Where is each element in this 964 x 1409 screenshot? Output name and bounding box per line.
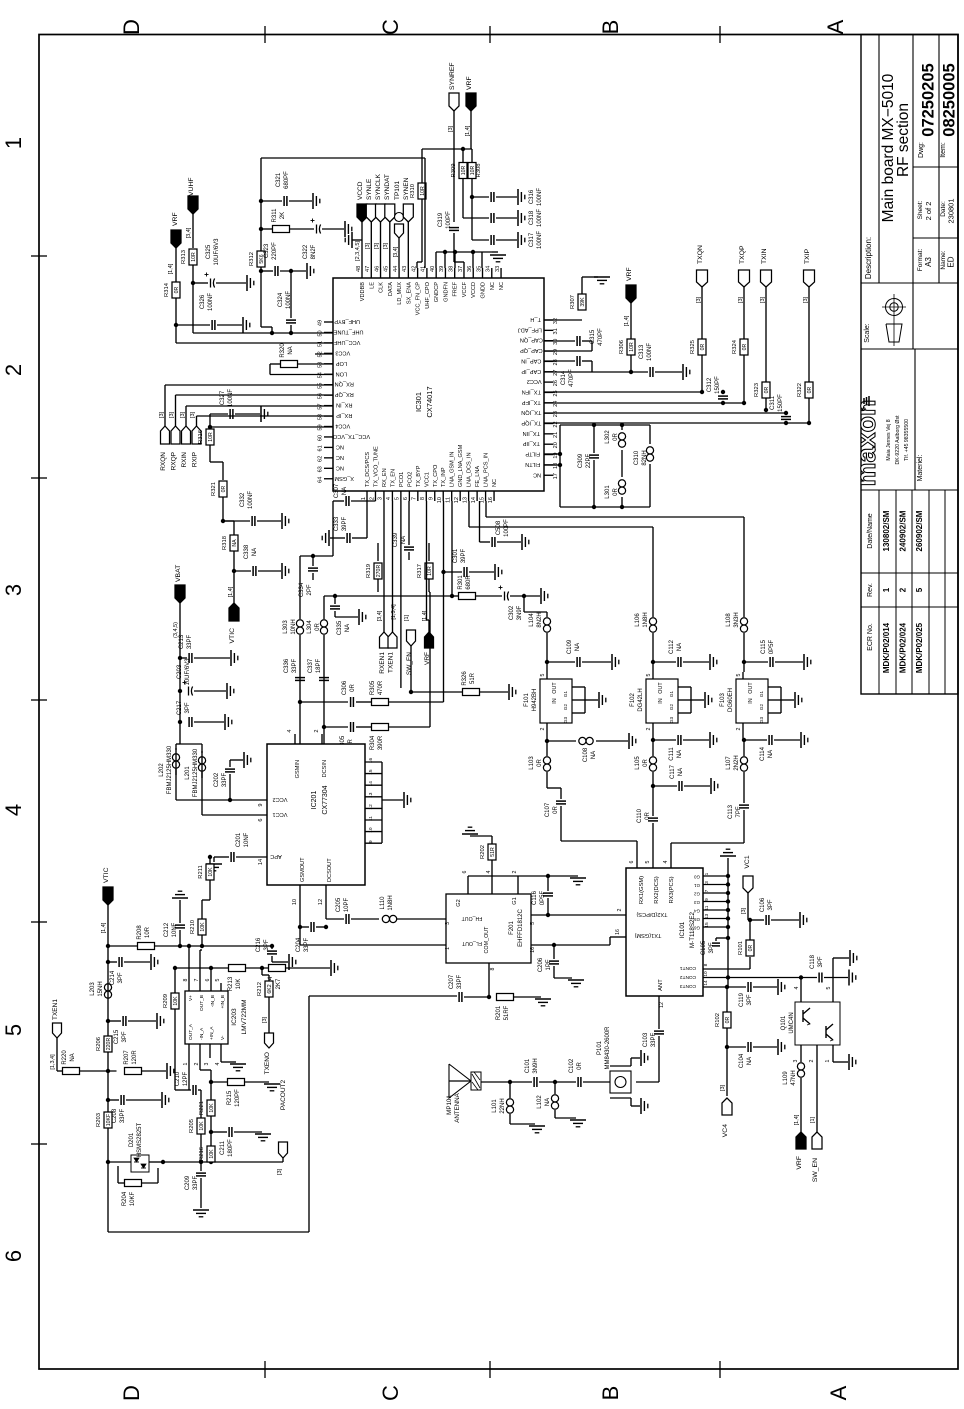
inductor L107 2N2H — [726, 740, 748, 803]
net flag VRF bottom — [794, 1114, 806, 1169]
svg-text:3: 3 — [204, 1062, 210, 1065]
capacitor C115 0P5F — [744, 639, 803, 667]
svg-text:Rev.: Rev. — [867, 583, 874, 597]
svg-text:[2,3,4,5]: [2,3,4,5] — [355, 241, 361, 261]
svg-text:C207: C207 — [449, 974, 455, 989]
svg-text:VCC2: VCC2 — [527, 378, 542, 384]
capacitor C322 8N2F polarized — [303, 219, 344, 260]
wire PCO1 stub — [400, 501, 402, 688]
svg-text:C339: C339 — [393, 532, 399, 547]
svg-text:2: 2 — [617, 908, 623, 911]
net flag TXQN — [696, 245, 708, 339]
svg-text:H942BH: H942BH — [532, 689, 538, 712]
capacitor C332 100NF — [223, 491, 281, 526]
wire detector line — [163, 1160, 283, 1164]
svg-text:28: 28 — [553, 359, 559, 365]
svg-text:VCC1: VCC1 — [424, 472, 430, 487]
svg-text:G3: G3 — [759, 716, 764, 723]
svg-text:G2: G2 — [759, 703, 764, 710]
svg-text:DATA: DATA — [388, 282, 394, 296]
svg-text:10K: 10K — [173, 996, 179, 1006]
svg-text:C333: C333 — [334, 516, 340, 531]
wire VCC1 line to IC201 — [202, 814, 267, 816]
capacitor C333 39PF — [330, 501, 367, 543]
svg-text:47: 47 — [365, 266, 371, 272]
svg-text:G5: G5 — [694, 917, 700, 922]
svg-text:GNDFN: GNDFN — [443, 282, 449, 302]
svg-text:33PF: 33PF — [651, 1032, 657, 1047]
svg-text:IN: IN — [552, 698, 558, 703]
resistor R208 10R — [108, 925, 272, 950]
net flag VTIC upper — [228, 586, 239, 643]
ground near C217 — [224, 714, 226, 730]
svg-text:SX_ENA: SX_ENA — [406, 282, 412, 304]
svg-text:10: 10 — [703, 971, 709, 977]
svg-text:[3]: [3] — [190, 411, 196, 418]
svg-text:RX3(PCS): RX3(PCS) — [669, 876, 675, 903]
svg-text:3: 3 — [793, 1059, 799, 1062]
svg-text:VCC4: VCC4 — [335, 423, 350, 429]
svg-text:GNDD: GNDD — [481, 282, 487, 298]
svg-text:[3]: [3] — [277, 1168, 283, 1175]
svg-text:C311: C311 — [770, 395, 776, 410]
svg-text:COM_OUT: COM_OUT — [484, 926, 490, 954]
capacitor C207 33PF — [449, 974, 491, 1002]
svg-text:R319: R319 — [366, 564, 372, 578]
svg-text:51R: 51R — [470, 672, 476, 684]
net flag RXQP — [169, 411, 180, 470]
svg-text:39K: 39K — [580, 297, 586, 307]
svg-text:[1,4]: [1,4] — [101, 922, 107, 933]
svg-text:EHFFD1812C: EHFFD1812C — [518, 908, 524, 946]
capacitor C337 18PF — [308, 658, 329, 680]
svg-text:C324: C324 — [278, 292, 284, 307]
svg-text:4: 4 — [486, 870, 492, 873]
capacitor C210 12PF — [175, 1058, 201, 1118]
ground near C111 — [709, 732, 711, 748]
net flag TXEN1 left — [50, 999, 63, 1071]
svg-text:C201: C201 — [236, 832, 242, 847]
capacitor C312 150PF — [707, 376, 728, 405]
svg-text:NC: NC — [492, 479, 498, 487]
capacitor C213 33PF — [179, 634, 230, 663]
svg-text:11: 11 — [446, 497, 452, 503]
Item number 08250005 — [940, 63, 959, 157]
svg-text:MP101: MP101 — [446, 1095, 453, 1115]
svg-text:R320: R320 — [280, 343, 286, 358]
ground near R202 — [462, 833, 478, 835]
svg-text:D: D — [119, 19, 144, 35]
svg-text:RXIP: RXIP — [192, 452, 199, 467]
svg-text:NC: NC — [336, 454, 344, 460]
capacitor C305 0R — [340, 722, 354, 750]
wire VCC_FN feed — [422, 147, 472, 151]
title block outline — [861, 35, 958, 695]
resistor R305 470R — [370, 680, 389, 705]
svg-text:C203: C203 — [177, 664, 183, 679]
svg-text:VCCD: VCCD — [471, 282, 477, 298]
svg-text:C310: C310 — [634, 450, 640, 465]
svg-text:NA: NA — [677, 643, 683, 651]
capacitor C316 100NF — [472, 188, 543, 206]
wire UHF charge pump rail — [259, 158, 272, 333]
svg-text:C338: C338 — [244, 544, 250, 559]
svg-text:10R: 10R — [629, 342, 635, 352]
svg-text:2: 2 — [194, 1062, 200, 1065]
svg-text:6: 6 — [258, 818, 264, 821]
svg-text:R211: R211 — [198, 865, 204, 878]
ground Q101 pin5 — [849, 950, 851, 966]
svg-text:R321: R321 — [211, 482, 217, 496]
svg-text:100PF: 100PF — [504, 519, 510, 537]
svg-text:C318: C318 — [529, 210, 535, 225]
svg-text:L109: L109 — [783, 1071, 789, 1085]
svg-text:VCC1: VCC1 — [273, 811, 288, 817]
svg-text:C302: C302 — [509, 605, 515, 620]
ground of supply bus — [490, 252, 506, 262]
svg-text:ANTENNA: ANTENNA — [454, 1092, 461, 1122]
ground near pin 48 — [345, 232, 362, 248]
IC IC101 LM-T118S2E2 antenna switch — [626, 860, 730, 996]
svg-text:14: 14 — [703, 980, 709, 986]
svg-text:0R: 0R — [748, 944, 754, 951]
svg-text:10R: 10R — [461, 165, 467, 175]
svg-text:TX_DCS/PCS: TX_DCS/PCS — [365, 452, 371, 487]
svg-text:33PF: 33PF — [222, 772, 228, 787]
wire GSM TX line — [300, 570, 446, 744]
svg-text:1: 1 — [183, 1062, 189, 1065]
svg-text:R212: R212 — [257, 982, 263, 996]
inductor L106 1N8H — [635, 612, 657, 672]
svg-text:LON: LON — [336, 370, 348, 376]
svg-text:3PF: 3PF — [709, 942, 715, 953]
svg-text:B: B — [598, 20, 623, 35]
svg-text:VBAT: VBAT — [175, 565, 182, 582]
wire RX_IP to flag — [197, 416, 334, 426]
svg-text:R322: R322 — [797, 383, 803, 397]
wire LNA_PCS feed line — [486, 501, 744, 617]
inductor L303 10NH — [283, 556, 304, 704]
Dwg number 07250205 — [918, 63, 938, 158]
ground near C206 — [568, 979, 584, 981]
svg-text:C: C — [378, 1385, 403, 1401]
ground near C108 — [628, 733, 630, 749]
svg-text:SYNLE: SYNLE — [366, 178, 373, 200]
svg-text:NA: NA — [252, 548, 258, 556]
resistor R306 10R — [619, 339, 635, 374]
svg-text:5: 5 — [215, 978, 221, 981]
capacitor C314 470PF — [544, 356, 592, 387]
svg-text:37: 37 — [458, 266, 464, 272]
net flag SYNDAT — [383, 174, 395, 268]
svg-text:G1: G1 — [759, 690, 764, 697]
capacitor C216 3PF — [256, 937, 288, 962]
svg-text:16: 16 — [530, 947, 536, 953]
revision table texts — [867, 510, 924, 673]
svg-text:0P5F: 0P5F — [769, 639, 775, 654]
svg-text:6: 6 — [1, 1250, 26, 1262]
net flag TXIP — [803, 248, 815, 382]
svg-text:C108: C108 — [583, 747, 589, 762]
svg-text:DG60EH: DG60EH — [728, 688, 734, 712]
svg-text:FH_OUT: FH_OUT — [461, 915, 483, 921]
svg-text:5: 5 — [395, 497, 401, 500]
svg-text:6: 6 — [205, 978, 211, 981]
ground near C332 — [281, 513, 283, 529]
svg-text:IC101: IC101 — [679, 921, 686, 938]
svg-text:VTIC: VTIC — [103, 867, 110, 883]
svg-text:G3: G3 — [694, 900, 700, 905]
svg-text:C325: C325 — [206, 244, 212, 259]
ground near C112 — [709, 654, 711, 670]
resistor R216 10K — [199, 1132, 215, 1162]
svg-text:TP101: TP101 — [394, 180, 401, 200]
svg-text:CX77304: CX77304 — [322, 785, 329, 814]
svg-text:10NF: 10NF — [244, 832, 250, 847]
svg-text:31: 31 — [553, 328, 559, 334]
resistor R322 0R — [797, 382, 813, 425]
svg-text:UMC4N: UMC4N — [789, 1012, 795, 1033]
svg-text:TX1(GSM): TX1(GSM) — [635, 932, 662, 938]
svg-text:23: 23 — [553, 411, 559, 417]
svg-text:CAP_IP: CAP_IP — [521, 368, 541, 374]
svg-text:RX_IP: RX_IP — [336, 412, 352, 418]
svg-text:VCC_TX_VCO: VCC_TX_VCO — [332, 433, 370, 439]
svg-text:MDK/P02/014: MDK/P02/014 — [882, 622, 891, 673]
svg-text:R324: R324 — [732, 339, 738, 354]
svg-text:C309: C309 — [578, 453, 584, 468]
resistor R309 10R — [451, 149, 467, 218]
inductor C310 82NH — [634, 425, 654, 507]
ground near C323 — [306, 263, 308, 279]
svg-text:TXENO: TXENO — [264, 1052, 271, 1074]
svg-text:R206: R206 — [96, 1037, 102, 1051]
resistor R312 5K6 — [249, 251, 265, 267]
svg-text:ED: ED — [947, 256, 956, 267]
ground near R207 — [166, 1063, 168, 1079]
svg-text:R316: R316 — [198, 430, 204, 444]
wire VCO feed line — [324, 501, 458, 598]
svg-text:FBMJ2125HM330: FBMJ2125HM330 — [167, 745, 173, 794]
wire UHF_TUNE pin50 — [193, 331, 333, 335]
net flag SYNREF — [448, 62, 459, 222]
svg-text:[3]: [3] — [696, 296, 702, 303]
svg-text:C315: C315 — [590, 329, 596, 344]
resistor R205 10K — [189, 1118, 205, 1162]
svg-text:L201: L201 — [185, 766, 191, 780]
capacitor C315 470PF — [544, 328, 604, 351]
svg-text:VTIC: VTIC — [229, 628, 236, 644]
svg-text:62: 62 — [318, 456, 324, 462]
wire VCC2 line to IC201 — [176, 798, 267, 802]
svg-text:0R: 0R — [742, 343, 748, 350]
net flag SYNLE — [365, 178, 376, 268]
ground near C118 — [848, 970, 850, 986]
svg-text:C202: C202 — [214, 772, 220, 787]
svg-text:30: 30 — [553, 339, 559, 345]
svg-text:100NF: 100NF — [537, 209, 543, 227]
wire RX1 to IC101 pin6 — [561, 841, 637, 868]
capacitor C205 10PF — [326, 897, 379, 924]
svg-text:F201: F201 — [509, 921, 515, 935]
net flag VBAT — [173, 565, 185, 744]
svg-text:LNA_GSM_IN: LNA_GSM_IN — [450, 452, 456, 487]
svg-text:2: 2 — [540, 727, 546, 730]
resistor R326 51R — [409, 671, 508, 696]
svg-text:15: 15 — [479, 497, 485, 503]
svg-text:CLK: CLK — [379, 282, 385, 293]
svg-text:10UF/6V3: 10UF/6V3 — [214, 238, 220, 266]
net flag RXQN — [159, 411, 170, 470]
svg-text:G1: G1 — [669, 690, 674, 697]
resistor R301 680R — [458, 575, 502, 600]
svg-text:VCCD: VCCD — [357, 181, 364, 200]
ground near C208 — [161, 1092, 163, 1108]
capacitor C214 3PF — [108, 957, 150, 985]
svg-text:G1: G1 — [694, 883, 700, 888]
ground near C327 — [260, 406, 262, 422]
svg-text:CAP_QN: CAP_QN — [520, 337, 543, 343]
svg-text:1PF: 1PF — [546, 959, 552, 970]
capacitor C112 NA — [653, 639, 709, 667]
net flag TXQP — [738, 245, 750, 339]
resistor R101 0R — [738, 918, 754, 956]
svg-text:IN: IN — [658, 698, 664, 703]
svg-text:R306: R306 — [619, 340, 625, 354]
svg-text:RX_EN: RX_EN — [382, 468, 388, 487]
ground above C212 — [172, 897, 188, 899]
svg-text:Format:: Format: — [917, 249, 924, 272]
svg-text:CAP_QP: CAP_QP — [520, 347, 543, 353]
resistor R102 0R — [715, 987, 731, 1096]
svg-text:C313: C313 — [639, 344, 645, 359]
svg-text:10KF: 10KF — [130, 1191, 136, 1206]
inductor L110 1N8H — [380, 895, 446, 922]
svg-text:260902/SM: 260902/SM — [915, 510, 924, 551]
svg-text:150PF: 150PF — [715, 376, 721, 394]
svg-text:UHF_CPO: UHF_CPO — [425, 281, 431, 308]
svg-text:R209: R209 — [163, 994, 169, 1008]
svg-text:Materiel:: Materiel: — [917, 455, 924, 482]
svg-text:NA: NA — [545, 1098, 551, 1106]
svg-text:21: 21 — [553, 432, 559, 438]
svg-text:+IN_B: +IN_B — [220, 995, 226, 1008]
svg-text:C312: C312 — [707, 377, 713, 392]
svg-text:OUT: OUT — [658, 682, 664, 694]
svg-text:4: 4 — [1, 804, 26, 816]
capacitor C212 10NF — [164, 900, 185, 946]
svg-text:2 of 2: 2 of 2 — [924, 202, 933, 221]
svg-text:220R: 220R — [106, 1038, 112, 1051]
svg-text:R220: R220 — [62, 1050, 68, 1065]
svg-text:8: 8 — [420, 497, 426, 500]
svg-text:C316: C316 — [529, 189, 535, 204]
svg-text:12: 12 — [454, 497, 460, 503]
svg-text:Sheet:: Sheet: — [917, 200, 924, 219]
ground near C119 — [777, 979, 779, 995]
svg-text:[1,3,4]: [1,3,4] — [391, 604, 397, 620]
svg-text:C215: C215 — [114, 1029, 120, 1044]
svg-text:[3]: [3] — [383, 242, 389, 249]
capacitor C313 100NF — [639, 343, 682, 377]
resistor R325 0R — [690, 339, 706, 394]
svg-text:C117: C117 — [670, 764, 676, 779]
svg-text:GSMOUT: GSMOUT — [300, 857, 306, 882]
svg-text:VUHF: VUHF — [188, 177, 195, 196]
svg-text:VRF: VRF — [796, 1156, 803, 1170]
svg-text:[3]: [3] — [159, 411, 165, 418]
svg-text:CAP_IN: CAP_IN — [521, 357, 541, 363]
svg-text:R325: R325 — [690, 340, 696, 354]
net flag SW_EN bottom — [810, 1056, 822, 1182]
svg-text:LD_MUX: LD_MUX — [397, 282, 403, 305]
inductor L304 0R — [307, 596, 328, 729]
svg-text:IC201: IC201 — [311, 791, 318, 810]
svg-text:NC: NC — [499, 282, 505, 290]
svg-text:L202: L202 — [159, 763, 165, 777]
svg-text:8: 8 — [703, 963, 709, 966]
resistor R318 NA — [222, 535, 238, 603]
resistor R319 270R — [366, 543, 382, 592]
svg-text:680PF: 680PF — [284, 171, 290, 189]
svg-text:10NH: 10NH — [291, 619, 297, 634]
svg-text:10K: 10K — [209, 1103, 215, 1113]
ground near C318 — [517, 210, 519, 226]
svg-text:L103: L103 — [529, 756, 535, 770]
svg-text:C206: C206 — [538, 957, 544, 972]
test point TP101 — [393, 180, 404, 268]
svg-text:58: 58 — [318, 414, 324, 420]
svg-text:G1: G1 — [563, 690, 568, 697]
svg-text:3: 3 — [445, 922, 451, 925]
svg-text:8N2H: 8N2H — [537, 612, 543, 627]
svg-text:RX1(GSM): RX1(GSM) — [639, 876, 645, 904]
resistor R211 10K — [198, 855, 214, 900]
ferrite bead L202 FBMJ2125HM330 — [159, 744, 202, 800]
svg-text:RXQN: RXQN — [160, 452, 167, 471]
svg-text:NA: NA — [747, 1057, 753, 1065]
svg-text:17: 17 — [553, 473, 559, 479]
svg-text:A3: A3 — [924, 257, 933, 267]
svg-text:13: 13 — [368, 792, 374, 798]
svg-text:APC: APC — [270, 853, 282, 859]
svg-text:Q101: Q101 — [781, 1015, 787, 1030]
ground near C115 — [803, 654, 805, 670]
svg-text:5: 5 — [645, 860, 651, 863]
ground near C213 — [230, 650, 232, 666]
svg-text:C337: C337 — [308, 658, 314, 673]
capacitor C309 22PF — [578, 423, 599, 509]
ground near C302 — [540, 588, 542, 604]
ground P101 top — [631, 1050, 648, 1066]
resistor R310 10R — [410, 149, 426, 268]
net flag VUHF — [186, 177, 198, 248]
svg-text:51R: 51R — [490, 847, 496, 857]
resistor R204 10KF — [118, 1166, 158, 1206]
capacitor C201 10NF — [214, 832, 267, 862]
svg-text:X_GSM: X_GSM — [334, 475, 354, 481]
svg-text:NA: NA — [678, 768, 684, 776]
svg-text:DCSIN: DCSIN — [322, 760, 328, 777]
svg-text:C105: C105 — [701, 940, 707, 955]
svg-text:P101: P101 — [597, 1040, 603, 1055]
wire FILTP FILTN to match network — [544, 425, 650, 507]
svg-text:C210: C210 — [175, 1071, 181, 1086]
svg-text:120PF: 120PF — [235, 1089, 241, 1107]
svg-text:0R: 0R — [174, 286, 180, 293]
net flag VRF right — [624, 267, 636, 339]
svg-text:R207: R207 — [124, 1050, 130, 1065]
